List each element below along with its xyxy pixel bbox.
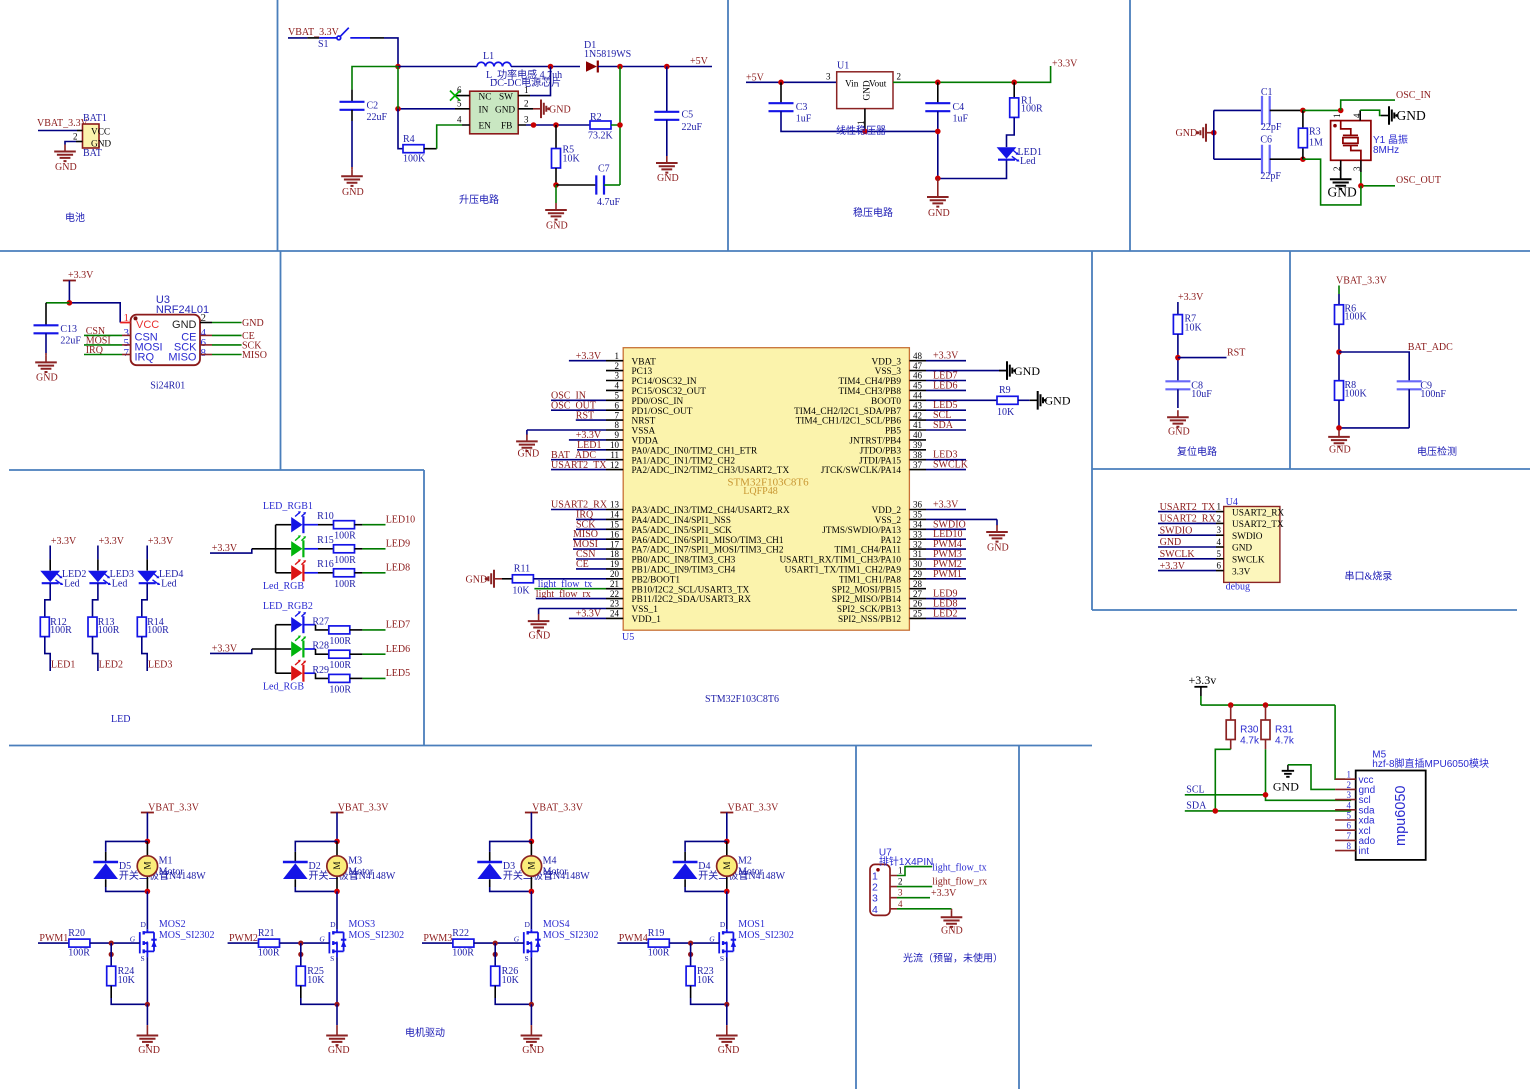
resistor R27	[312, 616, 351, 647]
svg-text:9: 9	[615, 430, 620, 440]
pin 30 stub/name	[909, 568, 926, 570]
svg-text:USART2_TX: USART2_TX	[1232, 520, 1284, 530]
resistor R10	[317, 511, 356, 542]
wire	[276, 572, 292, 574]
svg-text:MOS_SI2302: MOS_SI2302	[543, 930, 599, 941]
svg-text:+3.3V: +3.3V	[1178, 292, 1204, 303]
svg-text:14: 14	[610, 510, 620, 520]
pin 27 stub/name	[909, 598, 926, 600]
svg-text:10K: 10K	[697, 975, 715, 986]
svg-text:32: 32	[913, 539, 922, 549]
ground (VSSA)	[516, 434, 539, 459]
ground (vdet)	[1328, 430, 1350, 456]
capacitor C2	[340, 101, 388, 124]
svg-text:VSSA: VSSA	[632, 427, 656, 437]
wire	[305, 672, 316, 674]
svg-text:GND: GND	[657, 173, 679, 184]
junction	[334, 889, 340, 895]
svg-text:D: D	[141, 920, 147, 929]
svg-text:G: G	[319, 934, 325, 943]
wire (red stem)	[146, 1025, 148, 1028]
junction	[553, 122, 559, 128]
wire	[1265, 740, 1267, 750]
svg-text:18: 18	[610, 549, 620, 559]
junction	[617, 122, 623, 128]
pin 6 (xcl) stub	[1335, 829, 1356, 831]
svg-text:GND: GND	[1045, 394, 1071, 408]
wire (red stem)	[351, 167, 353, 169]
svg-text:16: 16	[610, 529, 620, 539]
svg-text:GND: GND	[1176, 128, 1198, 139]
svg-text:PA5/ADC_IN5/SPI1_SCK: PA5/ADC_IN5/SPI1_SCK	[632, 526, 733, 536]
pin1 stub (red)	[120, 322, 130, 324]
svg-text:VDD_2: VDD_2	[872, 506, 902, 516]
junction	[145, 889, 151, 895]
svg-text:GND: GND	[549, 105, 571, 116]
wire (pin35 VSS_2 to GND)	[926, 518, 997, 520]
wire	[288, 37, 307, 39]
svg-text:19: 19	[610, 559, 620, 569]
diode D5 (flyback)	[106, 841, 148, 891]
svg-text:34: 34	[913, 520, 923, 530]
wire	[45, 637, 50, 671]
svg-text:5: 5	[615, 391, 620, 401]
svg-text:100R: 100R	[452, 948, 474, 959]
net label light_flow_rx + wire (U7 pin2)	[897, 886, 932, 888]
svg-text:+3.3V: +3.3V	[1052, 59, 1078, 70]
wire	[726, 813, 728, 842]
svg-text:100K: 100K	[403, 154, 426, 165]
svg-text:36: 36	[913, 500, 923, 510]
svg-text:PB10/I2C2_SCL/USART3_TX: PB10/I2C2_SCL/USART3_TX	[632, 585, 750, 595]
ground (MOS3)	[326, 1029, 349, 1057]
svg-text:10K: 10K	[118, 975, 136, 986]
wire	[350, 677, 363, 679]
svg-text:48: 48	[913, 351, 923, 361]
pin numbers right	[201, 312, 207, 359]
svg-text:C3: C3	[796, 102, 808, 113]
ground (battery)	[54, 145, 76, 174]
wire	[69, 281, 120, 323]
svg-text:7: 7	[615, 410, 620, 420]
svg-text:线性稳压器: 线性稳压器	[836, 124, 886, 137]
svg-text:44: 44	[913, 391, 923, 401]
resistor R9	[997, 385, 1018, 418]
svg-text:IRQ: IRQ	[135, 352, 155, 364]
motor M4	[530, 841, 532, 891]
pin 4 stub/name	[606, 389, 623, 391]
resistor R7	[1177, 302, 1179, 315]
svg-text:2: 2	[615, 361, 620, 371]
svg-text:NRST: NRST	[632, 417, 656, 427]
ground (C13)	[35, 355, 57, 383]
svg-text:PA6/ADC_IN6/SPI1_MISO/TIM3_CH1: PA6/ADC_IN6/SPI1_MISO/TIM3_CH1	[632, 536, 784, 546]
pin stub pin1	[77, 130, 83, 132]
svg-text:D: D	[330, 920, 336, 929]
svg-text:43: 43	[913, 400, 923, 410]
pin 9 stub/name	[606, 439, 623, 441]
svg-text:4: 4	[898, 899, 903, 909]
wire (source)	[530, 957, 532, 1004]
wire	[530, 1004, 532, 1025]
junction	[1300, 156, 1306, 162]
LED1	[997, 147, 1042, 167]
junction	[1213, 808, 1219, 814]
svg-text:PWM3: PWM3	[423, 933, 452, 944]
ground (pin2, sideways)	[533, 100, 571, 119]
svg-text:+3.3V: +3.3V	[931, 888, 957, 899]
svg-text:MOS2: MOS2	[159, 919, 186, 930]
resistor R22	[452, 928, 474, 958]
wire	[1018, 399, 1030, 401]
svg-text:S1: S1	[318, 39, 329, 50]
wire	[142, 637, 147, 671]
svg-text:100R: 100R	[329, 660, 351, 671]
ground (C2)	[341, 169, 363, 198]
svg-text:11: 11	[610, 450, 619, 460]
wire (red stem)	[726, 1025, 728, 1028]
wire	[305, 548, 319, 550]
svg-text:100R: 100R	[50, 625, 72, 636]
wire (motor to MOSFET drain)	[146, 891, 148, 929]
svg-text:U1: U1	[837, 61, 849, 72]
net flag +3.3V (NRF)	[63, 270, 94, 281]
wire	[300, 986, 302, 998]
svg-text:R28: R28	[312, 641, 329, 652]
svg-text:13: 13	[610, 500, 620, 510]
svg-text:10K: 10K	[1185, 323, 1203, 334]
svg-text:OSC_OUT: OSC_OUT	[1396, 175, 1441, 186]
wire (green to C2)	[352, 67, 398, 90]
wire	[604, 184, 620, 186]
svg-text:R31: R31	[1275, 725, 1294, 736]
resistor R12	[40, 617, 72, 637]
junction	[67, 300, 73, 306]
wire	[1214, 110, 1262, 159]
svg-text:VCC: VCC	[136, 319, 159, 331]
pin stubs U7	[890, 876, 897, 909]
svg-text:USART1_TX/TIM1_CH2/PA9: USART1_TX/TIM1_CH2/PA9	[785, 566, 902, 576]
svg-text:hzf-8脚直插MPU6050模块: hzf-8脚直插MPU6050模块	[1372, 757, 1489, 770]
net label light_flow_tx + wire (U7 pin1)	[897, 867, 932, 876]
svg-text:S: S	[525, 954, 529, 963]
svg-text:22uF: 22uF	[682, 122, 703, 133]
pin 28 stub/name	[909, 588, 926, 590]
svg-text:12: 12	[610, 460, 619, 470]
pin 7 stub/name	[606, 419, 623, 421]
wire (green to C13)	[46, 302, 69, 304]
junction	[298, 941, 303, 946]
wire (pin20)	[533, 578, 606, 580]
svg-text:R2: R2	[590, 112, 602, 123]
resistor R15	[317, 535, 356, 566]
wire	[305, 572, 319, 574]
svg-text:7: 7	[1347, 831, 1352, 841]
svg-text:GND: GND	[1328, 185, 1357, 200]
junction	[395, 106, 401, 112]
svg-text:光流（预留，未使用）: 光流（预留，未使用）	[903, 952, 1003, 965]
wire	[598, 66, 712, 68]
resistor R13	[88, 617, 120, 637]
svg-text:S: S	[330, 954, 334, 963]
wire	[276, 648, 292, 650]
ground (U7)	[941, 909, 963, 937]
svg-text:R11: R11	[514, 564, 530, 575]
wire	[437, 125, 462, 149]
svg-text:GND: GND	[1168, 427, 1190, 438]
net label GND (right) + wire	[200, 322, 212, 324]
ground (R11, sideways)	[466, 570, 503, 588]
svg-text:+3.3V: +3.3V	[148, 536, 174, 547]
wire	[355, 572, 363, 574]
svg-text:35: 35	[913, 510, 923, 520]
svg-text:L1: L1	[483, 51, 494, 62]
junction	[935, 129, 941, 135]
svg-text:42: 42	[913, 410, 922, 420]
svg-text:JNTRST/PB4: JNTRST/PB4	[849, 437, 901, 447]
svg-text:VBAT_3.3V: VBAT_3.3V	[1336, 276, 1388, 287]
pin 6 stub/name	[606, 409, 623, 411]
svg-text:MISO: MISO	[168, 352, 197, 364]
svg-text:M3: M3	[348, 856, 362, 867]
wire	[1177, 334, 1179, 381]
LED LED_RGB2 (LED7)	[291, 611, 306, 633]
U3 NRF24L01	[131, 294, 210, 365]
wire (FB node)	[526, 124, 590, 126]
wire (R5 to GND, green)	[555, 185, 557, 203]
svg-text:41: 41	[913, 420, 922, 430]
svg-text:LED8: LED8	[386, 563, 410, 574]
svg-text:SPI2_MOSI/PB15: SPI2_MOSI/PB15	[832, 585, 902, 595]
pin stubs and numbers	[455, 96, 533, 125]
pin 24 stub/name	[606, 617, 623, 619]
svg-text:LED7: LED7	[386, 620, 410, 631]
svg-text:10: 10	[610, 440, 620, 450]
svg-text:FB: FB	[501, 122, 512, 132]
wire	[1200, 687, 1202, 696]
wire	[49, 546, 51, 560]
junction	[1175, 355, 1181, 361]
svg-text:31: 31	[913, 549, 922, 559]
svg-text:2: 2	[1347, 780, 1352, 790]
svg-text:LED1: LED1	[51, 659, 75, 670]
wire (U1 out, green)	[893, 66, 1051, 82]
ground (VSS_1)	[528, 614, 550, 641]
svg-text:GND: GND	[36, 373, 58, 384]
svg-text:D: D	[525, 920, 531, 929]
wire	[726, 1004, 728, 1025]
svg-text:2: 2	[73, 132, 78, 142]
svg-text:GND: GND	[55, 162, 77, 173]
svg-text:22uF: 22uF	[367, 112, 388, 123]
svg-text:PWM1: PWM1	[39, 933, 68, 944]
svg-text:MOS1: MOS1	[738, 919, 765, 930]
wire	[276, 524, 292, 526]
svg-text:8: 8	[1347, 841, 1352, 851]
svg-text:1: 1	[124, 312, 130, 324]
svg-text:3: 3	[898, 888, 903, 898]
wire (OSC_IN, green)	[1341, 100, 1395, 110]
svg-text:PA7/ADC_IN7/SPI1_MOSI/TIM3_CH2: PA7/ADC_IN7/SPI1_MOSI/TIM3_CH2	[632, 546, 784, 556]
resistor R1	[1013, 82, 1015, 98]
resistor R6	[1335, 304, 1368, 325]
svg-text:100R: 100R	[147, 625, 169, 636]
svg-text:C5: C5	[682, 110, 694, 121]
svg-text:GND: GND	[1273, 780, 1299, 794]
svg-text:Led: Led	[64, 579, 80, 590]
svg-text:4: 4	[615, 381, 620, 391]
svg-text:PWM2: PWM2	[229, 933, 258, 944]
svg-text:VDD_1: VDD_1	[632, 615, 662, 625]
wire (RST)	[1178, 357, 1227, 359]
junction	[493, 941, 498, 946]
svg-text:22pF: 22pF	[1261, 122, 1282, 133]
wire	[210, 549, 252, 553]
diode D2 (flyback)	[295, 841, 337, 891]
resistor R4	[403, 134, 426, 165]
svg-text:debug: debug	[1226, 582, 1250, 593]
pin 19 stub/name	[606, 568, 623, 570]
svg-text:R3: R3	[1309, 127, 1321, 138]
wire (source)	[336, 957, 338, 1004]
net label SCK + wire	[200, 344, 212, 346]
resistor R23	[690, 943, 692, 966]
svg-text:25: 25	[913, 609, 923, 619]
wire	[555, 168, 557, 185]
svg-text:PD0/OSC_IN: PD0/OSC_IN	[632, 397, 684, 407]
svg-text:PC14/OSC32_IN: PC14/OSC32_IN	[632, 377, 697, 387]
pin numbers (rotated)	[1332, 113, 1362, 171]
svg-text:33: 33	[913, 529, 923, 539]
svg-text:3: 3	[1347, 790, 1352, 800]
svg-text:U4: U4	[1226, 497, 1238, 508]
svg-text:3: 3	[826, 72, 831, 82]
svg-text:R30: R30	[1240, 725, 1259, 736]
svg-text:R9: R9	[999, 385, 1011, 396]
svg-text:R27: R27	[312, 616, 329, 627]
junction	[935, 176, 941, 182]
svg-text:2: 2	[524, 98, 529, 108]
svg-text:29: 29	[913, 569, 923, 579]
svg-text:6: 6	[615, 400, 620, 410]
svg-text:GND: GND	[172, 319, 197, 331]
svg-text:BAT1: BAT1	[83, 113, 107, 124]
svg-text:VSS_2: VSS_2	[875, 516, 902, 526]
svg-text:100R: 100R	[334, 555, 356, 566]
LED LED2	[40, 569, 86, 590]
wire	[280, 942, 330, 944]
svg-text:2: 2	[897, 72, 902, 82]
svg-text:LQFP48: LQFP48	[743, 486, 777, 497]
inductor L1	[477, 51, 511, 67]
svg-text:10K: 10K	[307, 975, 325, 986]
svg-text:LED_RGB1: LED_RGB1	[263, 501, 313, 512]
svg-text:R29: R29	[312, 665, 329, 676]
svg-text:PWM4: PWM4	[619, 933, 648, 944]
wire (green U loop)	[1303, 159, 1361, 205]
resistor R14	[137, 617, 169, 637]
pin 38 stub/name	[909, 459, 926, 461]
pin 42 stub/name	[909, 419, 926, 421]
svg-text:LED6: LED6	[386, 644, 410, 655]
junction	[1336, 425, 1342, 431]
capacitor C4	[937, 82, 939, 103]
svg-text:MOS_SI2302: MOS_SI2302	[738, 930, 794, 941]
junction	[1211, 130, 1217, 136]
wire	[1270, 110, 1303, 159]
pin 3 stub/name	[606, 380, 623, 382]
capacitor C13	[45, 303, 47, 325]
svg-text:8MHz: 8MHz	[1373, 145, 1399, 156]
svg-text:22: 22	[610, 589, 619, 599]
LED LED_RGB1 (LED9)	[291, 535, 306, 557]
svg-text:GND: GND	[328, 1045, 350, 1056]
ground (C5)	[656, 156, 679, 184]
svg-text:PA2/ADC_IN2/TIM2_CH3/USART2_TX: PA2/ADC_IN2/TIM2_CH3/USART2_TX	[632, 466, 790, 476]
svg-text:Led: Led	[161, 579, 177, 590]
svg-text:6: 6	[1217, 561, 1222, 571]
svg-text:M2: M2	[738, 856, 752, 867]
svg-text:6: 6	[1347, 821, 1352, 831]
svg-text:TIM1_CH4/PA11: TIM1_CH4/PA11	[835, 546, 902, 556]
pin 26 stub/name	[909, 608, 926, 610]
svg-text:S: S	[720, 954, 724, 963]
MOSFET MOS4 MOS_SI2302	[514, 919, 599, 963]
ground (VSS_2)	[986, 525, 1008, 554]
svg-text:SPI2_MISO/PB14: SPI2_MISO/PB14	[832, 595, 902, 605]
svg-text:3: 3	[1217, 525, 1222, 535]
junction	[1011, 80, 1017, 86]
svg-text:100R: 100R	[334, 531, 356, 542]
pin 17 stub/name	[606, 548, 623, 550]
pin 29 stub/name	[909, 578, 926, 580]
resistor R21	[258, 928, 280, 958]
svg-text:5: 5	[1347, 811, 1352, 821]
pin 41 stub/name	[909, 429, 926, 431]
svg-text:SPI2_SCK/PB13: SPI2_SCK/PB13	[837, 605, 901, 615]
wire (pin8 VSSA to GND)	[527, 430, 606, 435]
switch S1	[319, 28, 370, 40]
pin stub pin4 + wire to GND	[1359, 110, 1361, 120]
svg-text:GND: GND	[1329, 445, 1351, 456]
svg-text:26: 26	[913, 599, 923, 609]
svg-text:C2: C2	[367, 101, 379, 112]
wire	[210, 649, 252, 653]
wire (R2 right to green vert)	[611, 67, 620, 186]
svg-text:+3.3V: +3.3V	[99, 536, 125, 547]
pin 14 stub/name	[606, 518, 623, 520]
wire	[146, 1004, 148, 1025]
pin 8 (int) stub	[1335, 850, 1356, 852]
svg-text:电压检测: 电压检测	[1417, 445, 1457, 458]
svg-text:R16: R16	[317, 559, 334, 570]
svg-text:100K: 100K	[1345, 389, 1368, 400]
wire	[110, 986, 112, 998]
wire	[1339, 389, 1409, 428]
svg-text:C1: C1	[1261, 87, 1273, 98]
wire	[937, 111, 939, 178]
svg-text:46: 46	[913, 371, 923, 381]
boost IC box	[470, 91, 519, 134]
junction	[862, 129, 868, 135]
svg-text:PB0/ADC_IN8/TIM3_CH3: PB0/ADC_IN8/TIM3_CH3	[632, 556, 736, 566]
wire	[93, 583, 98, 617]
wire	[938, 161, 1007, 179]
svg-text:Vin: Vin	[845, 80, 859, 90]
svg-text:GND: GND	[138, 1045, 160, 1056]
svg-text:10K: 10K	[563, 154, 581, 165]
svg-text:MOS3: MOS3	[349, 919, 376, 930]
